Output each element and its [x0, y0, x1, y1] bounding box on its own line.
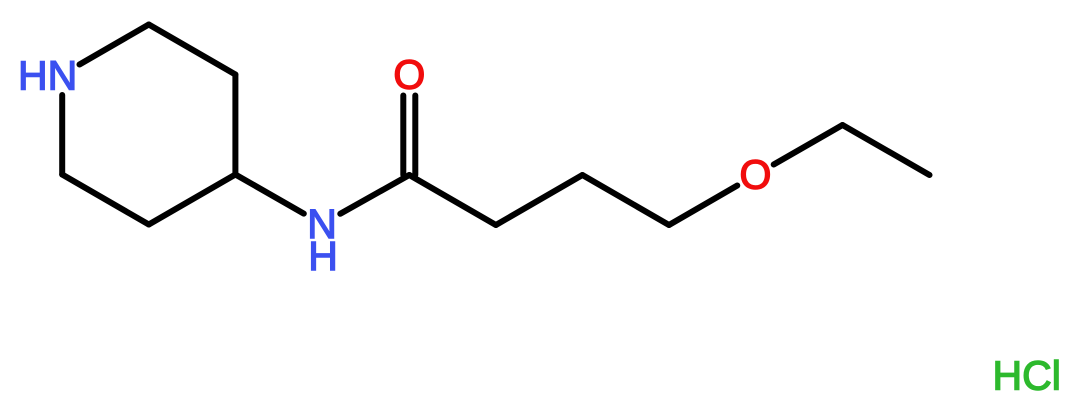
wire C8-C9: [496, 175, 583, 225]
wire C4 to amide N: [235, 175, 303, 214]
wire piperidine C2-C3 (top-right edge): [149, 25, 236, 75]
wire piperidine C3-C4 (right vertical edge): [232, 75, 238, 175]
wire C11-C12 (terminal ethyl): [843, 125, 930, 175]
svg-text:O: O: [740, 152, 772, 198]
wire C10 to ether O: [669, 186, 737, 226]
wire C7=O double bond line 2: [412, 96, 418, 176]
wire amide N to carbonyl C7: [340, 175, 409, 214]
wire C7=O double bond line 1: [400, 96, 406, 176]
wire C7-C8: [409, 175, 496, 225]
wire piperidine C4-C5 (bottom-right edge): [149, 175, 236, 225]
svg-text:H: H: [308, 233, 338, 279]
wire piperidine C5-C6 (bottom-left edge): [62, 175, 149, 225]
wire ether O to C11: [774, 125, 843, 165]
wire piperidine C6-N1 (left vertical edge): [59, 95, 65, 175]
svg-text:HCl: HCl: [993, 353, 1061, 399]
wire C9-C10: [582, 175, 669, 225]
svg-text:HN: HN: [18, 53, 77, 99]
wire piperidine N1-C2 (top-left edge): [80, 25, 149, 65]
svg-text:O: O: [393, 52, 425, 98]
